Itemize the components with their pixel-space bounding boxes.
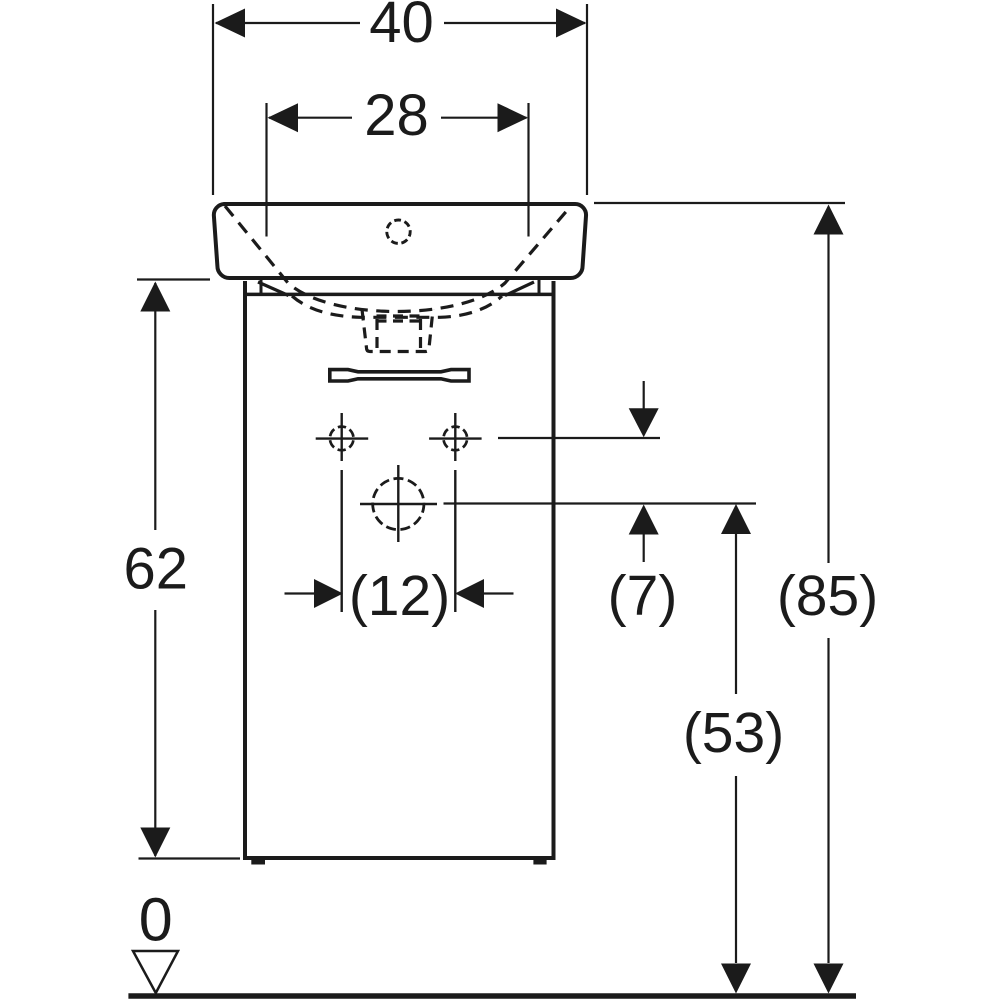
svg-text:(85): (85) bbox=[777, 564, 878, 628]
svg-text:62: 62 bbox=[124, 537, 189, 602]
dimension 85 shaft upper bbox=[827, 235, 829, 564]
drain trap dashed inner vertical right bbox=[419, 319, 422, 349]
dimension 28 arrowhead right bbox=[498, 103, 529, 132]
fixing hole crosshair left vertical bbox=[341, 413, 343, 461]
cabinet bottom edge bbox=[243, 856, 556, 860]
svg-text:40: 40 bbox=[369, 0, 434, 55]
fixing hole crosshair left horizontal bbox=[316, 437, 369, 439]
svg-text:(12): (12) bbox=[349, 564, 450, 628]
dimension 7 upper shaft bbox=[643, 381, 645, 409]
dimension 40 line right segment bbox=[444, 22, 585, 24]
fixing hole crosshair right circle bbox=[444, 427, 468, 451]
door handle bbox=[330, 370, 469, 381]
dimension 62 line lower segment bbox=[154, 610, 156, 856]
dimension 12 left tail bbox=[285, 592, 315, 594]
dimension 28 line left segment bbox=[269, 117, 352, 119]
basin bowl dashed arc lower bbox=[292, 296, 502, 317]
dimension 40 arrowhead right bbox=[556, 9, 587, 38]
svg-text:28: 28 bbox=[364, 83, 429, 148]
dimension 28 extension line right bbox=[527, 103, 529, 237]
dimension 53 arrowhead down bbox=[721, 964, 751, 994]
reference line water connection level bbox=[444, 502, 757, 504]
dimension 85 arrowhead up bbox=[814, 205, 844, 235]
cabinet bracket right vertical bbox=[538, 280, 541, 293]
cabinet top rail bbox=[243, 293, 556, 297]
cabinet left edge bbox=[243, 281, 247, 858]
dimension 28 line right segment bbox=[441, 117, 527, 119]
dimension 28 extension line left bbox=[265, 103, 267, 237]
dimension 12 arrowhead right bbox=[455, 579, 484, 608]
dimension 7 arrowhead up bbox=[629, 505, 659, 535]
cabinet foot right bbox=[533, 860, 546, 865]
reference line basin top level bbox=[594, 202, 845, 204]
bowl silhouette diagonal right bbox=[505, 282, 534, 296]
cabinet foot left bbox=[251, 860, 265, 865]
washbasin outline bbox=[214, 204, 586, 278]
dimension 62 arrowhead down bbox=[140, 828, 170, 858]
dimension 85 shaft lower bbox=[827, 638, 829, 963]
dimension 12 arrowhead left bbox=[314, 579, 343, 608]
water connection dashed circle bbox=[373, 478, 424, 529]
dimension 53 shaft lower bbox=[735, 776, 737, 963]
fixing hole left extension line down bbox=[341, 470, 343, 612]
dimension 40 line left segment bbox=[216, 22, 360, 24]
dimension 85 arrowhead down bbox=[814, 964, 844, 994]
dimension 53 shaft upper bbox=[735, 534, 737, 694]
dimension 28 arrowhead left bbox=[268, 103, 299, 132]
cabinet bracket left vertical bbox=[260, 280, 263, 293]
dimension 7 arrowhead down bbox=[629, 408, 659, 437]
dimension 7 lower shaft bbox=[643, 535, 645, 563]
svg-text:(53): (53) bbox=[683, 701, 784, 765]
dimension 62 line upper segment bbox=[154, 283, 156, 530]
fixing hole right extension line down bbox=[454, 470, 456, 612]
drain trap dashed outer cup bbox=[362, 310, 433, 352]
svg-text:0: 0 bbox=[139, 886, 173, 954]
dimension 53 arrowhead up bbox=[721, 504, 751, 534]
dimension 40 extension line right bbox=[586, 4, 588, 195]
dimension 62 arrowhead up bbox=[140, 282, 170, 312]
drain trap flange dashed line lower bbox=[377, 319, 422, 322]
dimension 62 bottom tick bbox=[139, 857, 241, 859]
fixing hole crosshair right vertical bbox=[454, 413, 456, 461]
dimension 12 right tail bbox=[484, 592, 514, 594]
dimension 40 extension line left bbox=[212, 4, 214, 195]
drain trap flange dashed line upper bbox=[377, 314, 422, 317]
drain trap dashed inner vertical left bbox=[375, 319, 378, 349]
tap hole dashed circle bbox=[387, 220, 410, 243]
fixing hole crosshair left circle bbox=[330, 427, 354, 451]
dimension 40 arrowhead left bbox=[215, 9, 246, 38]
fixing hole crosshair right horizontal bbox=[429, 437, 482, 439]
cabinet right edge bbox=[552, 281, 556, 858]
dimension 62 top tick bbox=[137, 278, 210, 280]
water connection crosshair vertical bbox=[397, 465, 399, 542]
svg-text:(7): (7) bbox=[608, 564, 678, 628]
datum triangle bbox=[133, 951, 178, 993]
ground line bbox=[128, 993, 856, 999]
water connection crosshair horizontal bbox=[360, 503, 437, 505]
basin bowl dashed arc upper bbox=[225, 206, 570, 312]
bowl silhouette diagonal left bbox=[258, 282, 289, 296]
reference line fixing holes level bbox=[498, 437, 660, 439]
